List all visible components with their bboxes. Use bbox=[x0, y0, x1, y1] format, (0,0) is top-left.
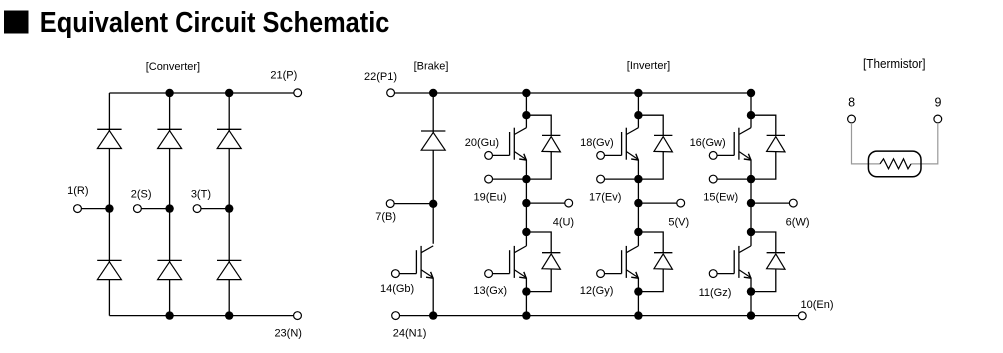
stub output 4(U) bbox=[526, 202, 564, 204]
terminal 15(Ew) bbox=[709, 175, 717, 183]
junction output node V bbox=[634, 199, 642, 207]
W upper freewheel diode branch wires bbox=[751, 115, 776, 135]
svg-text:4(U): 4(U) bbox=[553, 216, 574, 228]
W leg collector vertical (upper) bbox=[750, 93, 752, 128]
terminal 4(U) bbox=[565, 199, 573, 207]
junction top rail / brake leg bbox=[429, 89, 437, 97]
svg-text:16(Gw): 16(Gw) bbox=[690, 137, 726, 149]
U upper freewheel diode return wire bbox=[526, 151, 551, 179]
svg-text:5(V): 5(V) bbox=[668, 216, 689, 228]
svg-text:1(R): 1(R) bbox=[67, 185, 88, 197]
junction input 3(T) / leg 3 bbox=[225, 204, 233, 212]
converter leg 1 vertical bbox=[108, 93, 110, 316]
P1 top rail (brake to inverter) bbox=[395, 92, 752, 94]
terminal 17(Ev) bbox=[597, 175, 605, 183]
V lower freewheel diode return wire bbox=[638, 269, 663, 292]
junction top rail / U leg bbox=[522, 89, 530, 97]
stub 19(Eu) bbox=[493, 178, 527, 180]
input stub 1(R) bbox=[81, 208, 109, 210]
U lower freewheel diode return wire bbox=[526, 269, 551, 292]
converter bottom rail (N bus) bbox=[109, 315, 293, 317]
svg-text:24(N1): 24(N1) bbox=[393, 328, 427, 340]
V lower freewheel diode bbox=[654, 253, 672, 270]
svg-text:8: 8 bbox=[848, 96, 855, 110]
inverter upper IGBT U (gate 20(Gu)) bbox=[493, 128, 527, 160]
svg-text:[Brake]: [Brake] bbox=[414, 61, 449, 73]
junction 7(B) node bbox=[429, 200, 437, 208]
junction lower collector node V bbox=[634, 228, 642, 236]
svg-text:3(T): 3(T) bbox=[191, 189, 211, 201]
svg-text:19(Eu): 19(Eu) bbox=[473, 192, 506, 204]
svg-text:[Converter]: [Converter] bbox=[146, 61, 200, 73]
terminal 19(Eu) bbox=[485, 175, 493, 183]
N1 bottom rail bbox=[400, 315, 799, 317]
junction bottom rail / W leg bbox=[747, 311, 755, 319]
svg-text:17(Ev): 17(Ev) bbox=[589, 192, 621, 204]
U lower freewheel diode bbox=[542, 253, 560, 270]
terminal 5(V) bbox=[677, 199, 685, 207]
terminal 11(Gz) bbox=[709, 270, 717, 278]
terminal 22(P1) bbox=[387, 89, 395, 97]
converter lower diode D5 bbox=[157, 260, 181, 279]
terminal 23(N) bbox=[294, 312, 302, 320]
terminal 20(Gu) bbox=[485, 152, 493, 160]
junction bottom rail / leg 2 bbox=[165, 311, 173, 319]
W upper freewheel diode return wire bbox=[751, 151, 776, 179]
junction lower collector node W bbox=[747, 228, 755, 236]
W leg mid vertical bbox=[750, 160, 752, 246]
U leg collector vertical (upper) bbox=[525, 93, 527, 128]
terminal 10(En) bbox=[798, 312, 806, 320]
converter lower diode D4 bbox=[97, 260, 121, 279]
junction top rail / leg 3 bbox=[225, 89, 233, 97]
inverter lower IGBT V (gate 12(Gy)) bbox=[605, 246, 639, 278]
thermistor lead wire right (grey) bbox=[911, 123, 938, 164]
converter lower diode D6 bbox=[217, 260, 241, 279]
terminal 12(Gy) bbox=[597, 270, 605, 278]
W leg lower emitter vertical bbox=[750, 278, 752, 316]
junction upper emitter node V bbox=[634, 175, 642, 183]
converter top rail (P bus) bbox=[109, 92, 293, 94]
svg-text:2(S): 2(S) bbox=[131, 189, 152, 201]
converter leg 2 vertical bbox=[169, 93, 171, 316]
terminal 9 bbox=[934, 115, 942, 123]
U upper freewheel diode bbox=[542, 135, 560, 152]
svg-text:6(W): 6(W) bbox=[786, 216, 810, 228]
V leg collector vertical (upper) bbox=[637, 93, 639, 128]
svg-text:20(Gu): 20(Gu) bbox=[465, 137, 499, 149]
svg-text:10(En): 10(En) bbox=[800, 299, 833, 311]
brake leg upper vertical bbox=[432, 93, 434, 244]
junction lower collector node U bbox=[522, 228, 530, 236]
inverter lower IGBT W (gate 11(Gz)) bbox=[717, 246, 751, 278]
brake emitter vertical bbox=[432, 278, 434, 316]
junction upper emitter node U bbox=[522, 175, 530, 183]
svg-text:13(Gx): 13(Gx) bbox=[473, 285, 507, 297]
brake diode bbox=[421, 131, 445, 150]
junction bottom rail / U leg bbox=[522, 311, 530, 319]
terminal 14(Gb) bbox=[392, 270, 400, 278]
junction lower emitter node U bbox=[522, 287, 530, 295]
junction input 2(S) / leg 2 bbox=[165, 204, 173, 212]
svg-text:18(Gv): 18(Gv) bbox=[580, 137, 614, 149]
terminal 13(Gx) bbox=[485, 270, 493, 278]
svg-text:Equivalent Circuit Schematic: Equivalent Circuit Schematic bbox=[40, 7, 390, 39]
thermistor lead wire left (grey) bbox=[852, 123, 881, 164]
V upper freewheel diode branch wires bbox=[638, 115, 663, 135]
stub 7(B) bbox=[394, 203, 433, 205]
inverter upper IGBT W (gate 16(Gw)) bbox=[717, 128, 751, 160]
terminal 8 bbox=[848, 115, 856, 123]
V upper freewheel diode return wire bbox=[638, 151, 663, 179]
junction upper collector node W bbox=[747, 111, 755, 119]
W lower freewheel diode bbox=[767, 253, 785, 270]
svg-text:11(Gz): 11(Gz) bbox=[699, 287, 732, 299]
U lower freewheel diode branch wires bbox=[526, 232, 551, 253]
svg-text:15(Ew): 15(Ew) bbox=[703, 192, 738, 204]
junction top rail / W leg bbox=[747, 89, 755, 97]
svg-text:23(N): 23(N) bbox=[274, 328, 302, 340]
U upper freewheel diode branch wires bbox=[526, 115, 551, 135]
junction bottom rail / V leg bbox=[634, 311, 642, 319]
junction top rail / V leg bbox=[634, 89, 642, 97]
converter upper diode D3 bbox=[217, 129, 241, 148]
svg-text:22(P1): 22(P1) bbox=[364, 71, 397, 83]
terminal 16(Gw) bbox=[709, 152, 717, 160]
svg-text:21(P): 21(P) bbox=[270, 69, 297, 81]
terminal 7(B) bbox=[386, 200, 394, 208]
junction bottom rail / brake emitter bbox=[429, 311, 437, 319]
terminal 2(S) bbox=[134, 205, 142, 213]
junction upper collector node U bbox=[522, 111, 530, 119]
svg-text:12(Gy): 12(Gy) bbox=[580, 285, 614, 297]
converter leg 3 vertical bbox=[228, 93, 230, 316]
svg-text:[Thermistor]: [Thermistor] bbox=[863, 57, 926, 71]
stub 15(Ew) bbox=[717, 178, 751, 180]
brake IGBT (gate 14(Gb)) bbox=[399, 246, 433, 278]
stub 17(Ev) bbox=[605, 178, 639, 180]
terminal 24(N1) bbox=[392, 312, 400, 320]
title square bullet bbox=[4, 11, 29, 34]
junction top rail / leg 2 bbox=[165, 89, 173, 97]
terminal 1(R) bbox=[74, 205, 82, 213]
junction lower emitter node V bbox=[634, 287, 642, 295]
thermistor resistor zigzag bbox=[880, 159, 911, 169]
V leg mid vertical bbox=[637, 160, 639, 246]
terminal 21(P) bbox=[294, 89, 302, 97]
input stub 3(T) bbox=[201, 208, 229, 210]
junction output node W bbox=[747, 199, 755, 207]
svg-text:7(B): 7(B) bbox=[375, 211, 396, 223]
junction bottom rail / leg 3 bbox=[225, 311, 233, 319]
junction output node U bbox=[522, 199, 530, 207]
inverter upper IGBT V (gate 18(Gv)) bbox=[605, 128, 639, 160]
stub output 5(V) bbox=[638, 202, 676, 204]
W upper freewheel diode bbox=[767, 135, 785, 152]
thermistor body (rounded rect) bbox=[868, 151, 921, 177]
terminal 6(W) bbox=[789, 199, 797, 207]
terminal 3(T) bbox=[193, 205, 201, 213]
inverter lower IGBT U (gate 13(Gx)) bbox=[493, 246, 527, 278]
W lower freewheel diode return wire bbox=[751, 269, 776, 292]
junction lower emitter node W bbox=[747, 287, 755, 295]
V leg lower emitter vertical bbox=[637, 278, 639, 316]
junction upper emitter node W bbox=[747, 175, 755, 183]
terminal 18(Gv) bbox=[597, 152, 605, 160]
W lower freewheel diode branch wires bbox=[751, 232, 776, 253]
U leg lower emitter vertical bbox=[525, 278, 527, 316]
V upper freewheel diode bbox=[654, 135, 672, 152]
input stub 2(S) bbox=[141, 208, 169, 210]
converter upper diode D2 bbox=[157, 129, 181, 148]
svg-text:14(Gb): 14(Gb) bbox=[380, 283, 414, 295]
U leg mid vertical bbox=[525, 160, 527, 246]
svg-text:[Inverter]: [Inverter] bbox=[627, 60, 670, 72]
stub output 6(W) bbox=[751, 202, 789, 204]
junction upper collector node V bbox=[634, 111, 642, 119]
converter upper diode D1 bbox=[97, 129, 121, 148]
V lower freewheel diode branch wires bbox=[638, 232, 663, 253]
svg-text:9: 9 bbox=[935, 96, 942, 110]
junction input 1(R) / leg 1 bbox=[105, 204, 113, 212]
